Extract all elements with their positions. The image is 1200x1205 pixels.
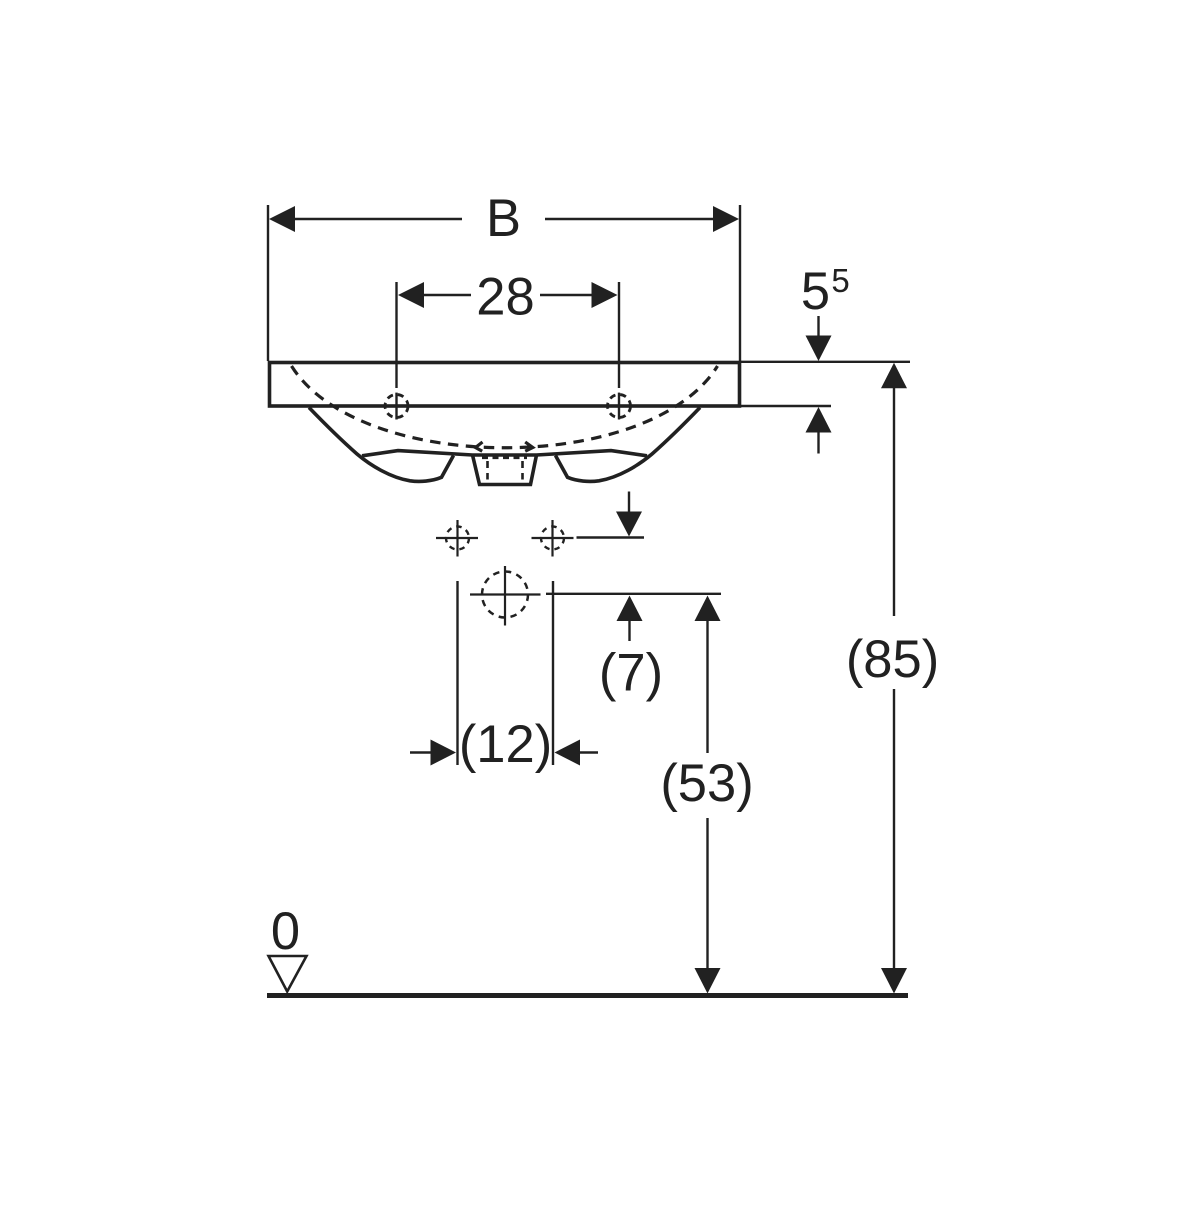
anchor hole right crosshair vertical — [551, 520, 553, 557]
drain hidden left edge dashed — [486, 461, 489, 480]
dimension 28 line — [423, 294, 593, 297]
dimension (53) upper line segment — [706, 621, 708, 753]
dimension 28 right arrowhead — [592, 282, 618, 308]
anchor level down arrow tail — [628, 492, 630, 514]
flow chevron right — [525, 442, 533, 451]
dimension (12) right arrowhead — [555, 740, 581, 766]
dimension (12) right arrow tail — [578, 751, 598, 753]
dimension B left extension line — [267, 205, 269, 361]
svg-text:5: 5 — [831, 262, 849, 299]
svg-text:5: 5 — [801, 262, 830, 321]
slab bottom edge extension line to 5.5 arrow — [740, 405, 831, 407]
svg-text:(12): (12) — [459, 715, 552, 774]
svg-text:(7): (7) — [599, 644, 663, 703]
dimension (85) upper arrowhead — [881, 363, 907, 389]
basin inner rim dashed curve — [292, 366, 718, 448]
anchor hole left dashed circle — [446, 527, 469, 550]
floor line — [267, 993, 908, 998]
dimension (53) lower line segment — [706, 818, 708, 969]
anchor hole left crosshair vertical — [456, 520, 458, 557]
anchor hole left crosshair horizontal — [436, 537, 478, 539]
outlet level reference line — [546, 593, 721, 595]
dimension B line — [294, 218, 714, 221]
dimension (7) arrow tail — [628, 621, 630, 641]
svg-text:0: 0 — [271, 902, 300, 961]
drain outlet dashed circle — [482, 572, 528, 618]
dimension (85) lower arrowhead — [881, 968, 907, 994]
dimension (53) upper arrowhead — [695, 596, 721, 622]
drain hidden top edge dashed — [482, 456, 527, 459]
svg-text:(53): (53) — [660, 754, 753, 813]
drain outlet crosshair vertical — [504, 566, 506, 626]
underside ridge line (feet tops) — [362, 451, 647, 456]
faucet hole left dashed circle — [385, 395, 408, 418]
dimension 28 right extension/centerline — [618, 282, 620, 420]
dimension (12) left arrowhead — [431, 740, 457, 766]
faucet hole right dashed circle — [608, 395, 631, 418]
dimension B left arrowhead — [269, 206, 295, 232]
zero level open triangle — [269, 956, 307, 992]
dimension (85) upper line segment — [893, 388, 895, 616]
drain outlet crosshair horizontal — [470, 593, 541, 595]
svg-text:B: B — [486, 189, 521, 248]
dimension B right extension line — [739, 205, 741, 361]
dimension (7) arrowhead — [617, 596, 643, 622]
dimension B right arrowhead — [713, 206, 739, 232]
dimension (53) lower arrowhead — [695, 968, 721, 994]
svg-text:28: 28 — [476, 267, 534, 326]
dimension (85) lower line segment — [893, 689, 895, 969]
washbasin slab outline — [270, 363, 740, 407]
dimension (12) right extension line — [552, 581, 554, 765]
anchor level line — [577, 536, 645, 538]
svg-text:(85): (85) — [846, 630, 939, 689]
dimension (12) left extension line — [456, 581, 458, 765]
drain hidden right edge dashed — [521, 461, 524, 480]
drain boss trapezoid — [473, 455, 537, 485]
dimension (12) left arrow tail — [410, 751, 432, 753]
dimension 28 left extension/centerline — [395, 282, 397, 420]
dimension 5.5 upper arrowhead — [806, 336, 832, 362]
anchor hole right crosshair horizontal — [532, 537, 574, 539]
bowl outer profile left — [309, 408, 454, 482]
dimension 5.5 lower arrow tail — [817, 433, 819, 454]
flow chevron left — [476, 442, 483, 451]
dimension 5.5 upper arrow tail — [817, 316, 819, 337]
dimension 28 left arrowhead — [398, 282, 424, 308]
dimension 5.5 lower arrowhead — [806, 407, 832, 433]
bowl outer profile right — [556, 408, 701, 482]
anchor level down arrowhead — [616, 512, 642, 537]
slab top edge extension line to (85) — [740, 361, 910, 363]
anchor hole right dashed circle — [541, 527, 564, 550]
